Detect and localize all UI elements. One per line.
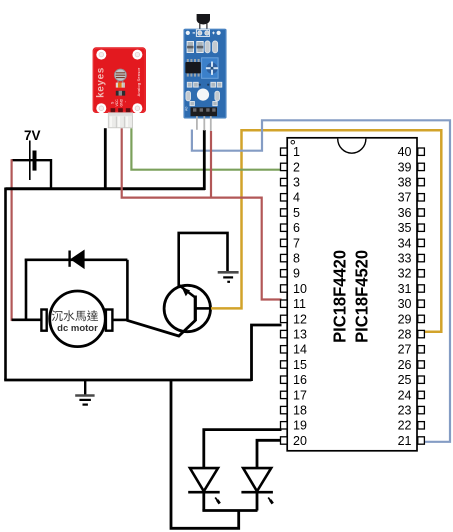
ground symbol at transistor bbox=[218, 272, 239, 282]
ground symbol under box bbox=[75, 381, 94, 405]
pin 36 bbox=[418, 209, 425, 216]
flame sensor pin legs bbox=[196, 116, 198, 130]
svg-text:27: 27 bbox=[398, 343, 412, 357]
svg-text:VCC: VCC bbox=[115, 99, 119, 107]
pin 8 bbox=[281, 254, 288, 261]
svg-text:19: 19 bbox=[293, 419, 307, 433]
pin 22 bbox=[418, 422, 425, 429]
wire black keyes signal drop bbox=[104, 128, 107, 190]
svg-text:7: 7 bbox=[293, 236, 300, 250]
pin 21 bbox=[418, 437, 425, 444]
wire pin 20 to LED2 bbox=[257, 440, 282, 468]
pin 14 bbox=[281, 346, 288, 353]
wire motor loop right bbox=[126, 260, 129, 320]
pin 29 bbox=[418, 315, 425, 322]
svg-text:18: 18 bbox=[293, 404, 307, 418]
op-amp chip U1 PIC18F4420/PIC18F4520 bbox=[287, 138, 417, 451]
svg-text:25: 25 bbox=[398, 373, 412, 387]
svg-text:38: 38 bbox=[398, 176, 412, 190]
pin 40 bbox=[418, 148, 425, 155]
wire motor loop left bbox=[25, 259, 28, 320]
svg-text:37: 37 bbox=[398, 191, 412, 205]
wire LED cathode rail bbox=[202, 509, 257, 512]
flame sensor smd row bbox=[187, 42, 193, 53]
svg-text:20: 20 bbox=[293, 434, 307, 448]
pin 17 bbox=[281, 391, 288, 398]
svg-text:PIC18F4420: PIC18F4420 bbox=[330, 250, 350, 343]
svg-text:40: 40 bbox=[398, 145, 412, 159]
svg-text:21: 21 bbox=[398, 434, 412, 448]
flame sensor IR detector bulb bbox=[197, 14, 210, 25]
svg-text:keyes: keyes bbox=[95, 67, 106, 98]
svg-text:28: 28 bbox=[398, 328, 412, 342]
pin 26 bbox=[418, 361, 425, 368]
flame sensor potentiometer bbox=[202, 58, 219, 79]
wire blue flame sensor to pin 21 bbox=[192, 120, 450, 442]
wire box left side bbox=[4, 188, 7, 381]
wire red from battery down left side bbox=[12, 159, 27, 320]
flame sensor module bbox=[184, 14, 227, 131]
pin 27 bbox=[418, 346, 425, 353]
pin 20 bbox=[281, 437, 288, 444]
wire red keyes + flame sensor to pin 11 bbox=[122, 128, 282, 299]
svg-text:33: 33 bbox=[398, 252, 412, 266]
pin 4 bbox=[281, 194, 288, 201]
svg-text:14: 14 bbox=[293, 343, 307, 357]
node box top rail (GND net) bbox=[6, 187, 206, 190]
wire motor to transistor emitter diagonal bbox=[127, 320, 196, 336]
pin 31 bbox=[418, 285, 425, 292]
pin 13 bbox=[281, 330, 288, 337]
flame sensor mid pads bbox=[187, 82, 192, 87]
svg-text:15: 15 bbox=[293, 358, 307, 372]
pin 5 bbox=[281, 209, 288, 216]
pin 9 bbox=[281, 270, 288, 277]
svg-text:Analog Sensor: Analog Sensor bbox=[136, 67, 141, 96]
wire diode row bbox=[25, 258, 128, 261]
pin 38 bbox=[418, 178, 425, 185]
pin 3 bbox=[281, 178, 288, 185]
pin 33 bbox=[418, 254, 425, 261]
svg-text:7V: 7V bbox=[24, 128, 41, 143]
pin 1 bbox=[281, 148, 288, 155]
svg-text:1: 1 bbox=[293, 145, 300, 159]
pin 18 bbox=[281, 406, 288, 413]
LED D3 bbox=[241, 468, 273, 510]
wire LED ground return bbox=[171, 381, 239, 528]
svg-text:22: 22 bbox=[398, 419, 412, 433]
svg-text:13: 13 bbox=[293, 328, 307, 342]
svg-text:A0: A0 bbox=[185, 107, 189, 111]
pin 32 bbox=[418, 270, 425, 277]
svg-text:36: 36 bbox=[398, 206, 412, 220]
flame sensor pcb bbox=[184, 29, 227, 119]
svg-text:11: 11 bbox=[293, 297, 306, 311]
svg-text:30: 30 bbox=[398, 297, 412, 311]
pin 2 bbox=[281, 163, 288, 170]
svg-text:39: 39 bbox=[398, 160, 412, 174]
wire transistor collector to ground bbox=[179, 233, 228, 286]
svg-text:23: 23 bbox=[398, 404, 412, 418]
svg-text:26: 26 bbox=[398, 358, 412, 372]
wire battery top horizontal bbox=[12, 159, 51, 161]
svg-text:17: 17 bbox=[293, 388, 307, 402]
pin 25 bbox=[418, 376, 425, 383]
diode D1 bbox=[70, 250, 85, 268]
wire red flame sensor drop bbox=[210, 131, 212, 197]
pin 6 bbox=[281, 224, 288, 231]
svg-text:34: 34 bbox=[398, 236, 412, 250]
wire battery negative to box top bbox=[50, 159, 52, 190]
pin 23 bbox=[418, 406, 425, 413]
pin 7 bbox=[281, 239, 288, 246]
svg-text:12: 12 bbox=[293, 312, 307, 326]
pin 28 bbox=[418, 330, 425, 337]
wire motor left lead bbox=[12, 318, 42, 321]
motor M1 bbox=[41, 291, 112, 347]
svg-text:35: 35 bbox=[398, 221, 412, 235]
wire pin13 riser bbox=[252, 325, 282, 381]
battery B1 plates bbox=[30, 141, 35, 181]
svg-text:4: 4 bbox=[293, 191, 300, 205]
resistor smd on keyes bbox=[116, 83, 125, 88]
svg-text:31: 31 bbox=[398, 282, 412, 296]
pin 15 bbox=[281, 361, 288, 368]
photoresistor on keyes bbox=[115, 69, 127, 81]
flame sensor mounting hole bbox=[197, 89, 209, 101]
wire black flame sensor gnd drop bbox=[203, 130, 206, 190]
keyes light sensor module bbox=[93, 47, 146, 128]
flame sensor edge capsules bbox=[186, 91, 191, 101]
wire yellow transistor base to pin 28 bbox=[211, 130, 441, 332]
pin 37 bbox=[418, 194, 425, 201]
svg-text:5: 5 bbox=[293, 206, 300, 220]
pin 10 bbox=[281, 285, 288, 292]
svg-text:dc motor: dc motor bbox=[57, 323, 98, 334]
wire green keyes to pin 2 bbox=[131, 128, 281, 170]
keyes 3-pin connector bbox=[108, 113, 132, 128]
pin 11 bbox=[281, 300, 288, 307]
svg-text:24: 24 bbox=[398, 388, 412, 402]
pin 16 bbox=[281, 376, 288, 383]
pin 35 bbox=[418, 224, 425, 231]
LED D2 bbox=[188, 468, 220, 510]
svg-text:32: 32 bbox=[398, 267, 412, 281]
transistor Q1 bbox=[164, 285, 210, 332]
pin 24 bbox=[418, 391, 425, 398]
pin 39 bbox=[418, 163, 425, 170]
pin 34 bbox=[418, 239, 425, 246]
wire pin 19 to LED1 bbox=[204, 430, 282, 468]
pin 12 bbox=[281, 315, 288, 322]
svg-text:29: 29 bbox=[398, 312, 412, 326]
flame sensor ic bbox=[187, 59, 189, 63]
flame sensor header bbox=[191, 107, 218, 116]
svg-text:3: 3 bbox=[293, 176, 300, 190]
svg-text:10: 10 bbox=[293, 282, 307, 296]
pin 19 bbox=[281, 422, 288, 429]
svg-text:6: 6 bbox=[293, 221, 300, 235]
pin 30 bbox=[418, 300, 425, 307]
wire motor right lead bbox=[112, 319, 128, 322]
svg-text:8: 8 bbox=[293, 252, 300, 266]
svg-text:PIC18F4520: PIC18F4520 bbox=[351, 250, 371, 343]
svg-text:9: 9 bbox=[293, 267, 300, 281]
svg-text:16: 16 bbox=[293, 373, 307, 387]
smd component on keyes bbox=[116, 91, 125, 96]
svg-text:2: 2 bbox=[293, 160, 300, 174]
wire box bottom rail bbox=[4, 379, 251, 382]
